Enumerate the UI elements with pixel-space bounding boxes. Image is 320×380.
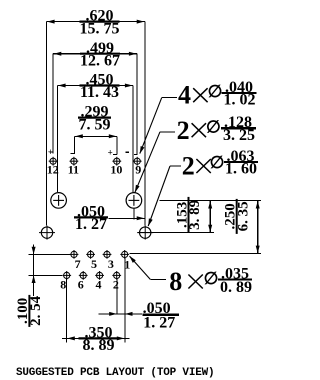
- extension line x53 to pin 12: [52, 54, 54, 154]
- extension line x137 to pin 9: [136, 54, 138, 155]
- svg-text:1. 27: 1. 27: [143, 315, 175, 332]
- dim line .499/12.67: [53, 53, 137, 55]
- dim line .450/11.43: [57, 85, 133, 87]
- dim line .250/6.35 vertical: [257, 200, 259, 253]
- dim line .620/15.75 top: [46, 21, 144, 23]
- svg-text:∅: ∅: [204, 269, 219, 288]
- pin 3 hole: [103, 250, 112, 259]
- svg-text:6: 6: [78, 277, 84, 291]
- extension foot pin 11: [70, 152, 75, 154]
- extension foot pin 12: [49, 151, 53, 153]
- extension line x133 to big-right hole: [132, 86, 134, 193]
- extension line left x46 to mid-left hole: [45, 22, 47, 226]
- pin 10 hole: [112, 157, 121, 166]
- callout 8x dia .035/0.89 text: [169, 265, 252, 296]
- svg-text:8: 8: [60, 277, 66, 291]
- svg-text:15. 75: 15. 75: [80, 20, 120, 37]
- mounting hole dia .128 left: [51, 193, 67, 209]
- extension line row1 to .100 dim: [29, 253, 71, 255]
- dim text .620/15.75: [80, 8, 120, 38]
- dim text .100/2.54 rotated: [15, 295, 44, 327]
- pin 11 hole: [70, 157, 79, 166]
- extension foot pin 10: [113, 154, 117, 156]
- dim text .299/7.59: [78, 104, 111, 134]
- svg-text:0. 89: 0. 89: [220, 279, 252, 296]
- svg-text:2: 2: [113, 277, 119, 291]
- dim text .153/3.89 rotated: [174, 197, 203, 233]
- svg-text:9: 9: [135, 162, 141, 176]
- svg-text:11: 11: [68, 162, 79, 176]
- svg-text:1. 60: 1. 60: [225, 161, 257, 178]
- pin 12 hole: [49, 157, 58, 166]
- svg-text:8. 89: 8. 89: [83, 337, 115, 354]
- svg-text:+: +: [108, 148, 113, 158]
- extension line pin row1 right: [130, 252, 261, 254]
- pin 7 hole: [70, 250, 79, 259]
- extension line pin 2 down: [116, 279, 118, 314]
- svg-text:5: 5: [91, 257, 97, 271]
- callout 2x dia .063/1.60 leader to right .063 hole: [148, 166, 181, 226]
- dim line .299/7.59: [75, 135, 117, 137]
- svg-text:∅: ∅: [210, 153, 225, 172]
- pin 4 hole: [95, 271, 104, 280]
- svg-text:8: 8: [169, 267, 182, 296]
- pin 1 hole: [120, 250, 129, 259]
- svg-text:3. 25: 3. 25: [223, 127, 255, 144]
- svg-text:2: 2: [177, 116, 190, 145]
- pin 5 hole: [86, 250, 95, 259]
- callout 2x dia .128/3.25 text: [177, 114, 256, 145]
- minus mark near pin 9: [126, 151, 129, 153]
- extension line pin 1 down: [124, 258, 126, 343]
- hole dia .063 right: [137, 226, 153, 240]
- dim text .250/6.35 rotated: [223, 199, 252, 234]
- svg-text:2: 2: [182, 152, 195, 181]
- extension line row2 to .100 dim: [29, 274, 62, 276]
- svg-text:4: 4: [96, 277, 102, 291]
- extension line x74.6 to pin 11: [74, 136, 76, 153]
- svg-text:11. 43: 11. 43: [80, 84, 119, 101]
- svg-text:4: 4: [178, 81, 191, 110]
- extension line right x145 to mid-right hole: [144, 22, 146, 226]
- svg-text:7: 7: [75, 257, 81, 271]
- callout 8x dia .035/0.89 leader to pin 1: [129, 256, 166, 280]
- pin 9 hole: [133, 157, 142, 166]
- extension line x117 to pin 10: [116, 136, 118, 154]
- stub below right big hole to .050 dim: [133, 209, 135, 220]
- dim line .350/8.89: [62, 337, 130, 339]
- dim line .050/1.27 bottom: [99, 313, 143, 315]
- svg-text:SUGGESTED PCB LAYOUT (TOP VIEW: SUGGESTED PCB LAYOUT (TOP VIEW): [16, 367, 214, 379]
- svg-text:6. 35: 6. 35: [235, 201, 251, 231]
- svg-text:1. 02: 1. 02: [224, 92, 256, 109]
- callout 2x dia .063/1.60 text: [182, 148, 258, 181]
- dim text .050/1.27 bottom: [142, 300, 179, 332]
- callout 2x dia .128/3.25 leader to right mounting hole: [135, 132, 175, 193]
- callout 4x dia .040/1.02 text: [178, 79, 257, 110]
- dim text .350/8.89: [79, 325, 119, 355]
- dim line .100/2.54 vertical: [33, 245, 35, 297]
- mounting hole dia .128 right: [126, 193, 142, 209]
- callout 4x dia .040/1.02 leader to pin 9: [140, 97, 177, 153]
- dim line .050/1.27 upper: [109, 217, 145, 219]
- dim line .153/3.89 vertical: [209, 200, 211, 232]
- extension line mid-hole row right: [138, 232, 215, 234]
- svg-text:1. 27: 1. 27: [75, 216, 107, 233]
- extension line pin 8 down: [66, 279, 68, 343]
- extension line x57 to big-left hole: [56, 86, 58, 193]
- svg-text:10: 10: [110, 162, 122, 176]
- dim text .450/11.43: [80, 72, 120, 102]
- svg-text:12. 67: 12. 67: [80, 52, 120, 69]
- svg-text:12: 12: [47, 162, 59, 176]
- extension foot pin 9: [134, 154, 137, 156]
- svg-text:∅: ∅: [206, 117, 221, 136]
- pin 6 hole: [79, 271, 88, 280]
- dim text .050/1.27 upper: [74, 204, 108, 234]
- hole dia .063 left: [39, 226, 55, 240]
- svg-text:3. 89: 3. 89: [187, 200, 203, 230]
- pin 2 hole: [112, 271, 121, 280]
- pin 8 hole: [62, 271, 71, 280]
- svg-text:7. 59: 7. 59: [79, 116, 111, 133]
- svg-text:+: +: [48, 147, 53, 157]
- dim text .499/12.67: [80, 40, 120, 70]
- extension line big-hole row right: [160, 199, 262, 201]
- svg-text:3: 3: [108, 257, 114, 271]
- svg-text:2. 54: 2. 54: [28, 295, 44, 326]
- svg-text:∅: ∅: [208, 82, 223, 101]
